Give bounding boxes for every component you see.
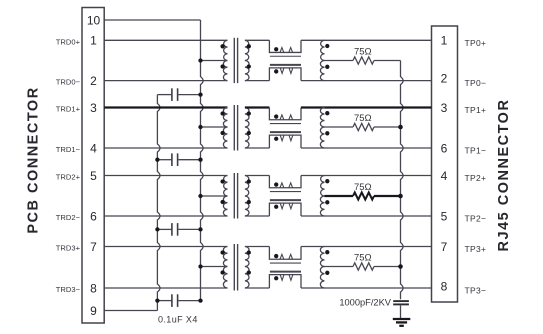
J2 pin 3 number xyxy=(441,101,448,115)
label TP0- xyxy=(465,78,487,88)
autotransformer AT4 winding xyxy=(320,247,329,289)
label TRD3- xyxy=(56,285,81,294)
svg-text:6: 6 xyxy=(90,209,97,223)
choke L1 core xyxy=(270,56,301,65)
wire choke L2 to autotransformer AT2 top / J2 xyxy=(301,106,432,108)
wire R1 to termination bus xyxy=(374,60,401,62)
transformer T3 primary winding xyxy=(220,176,227,217)
svg-text:TRD2−: TRD2− xyxy=(56,213,81,222)
wire J1 pin10 to common bus xyxy=(104,19,200,21)
choke L3 bottom winding xyxy=(269,203,301,216)
wire J1 TRD1- to T2 xyxy=(104,147,227,149)
svg-text:TRD3−: TRD3− xyxy=(56,285,81,294)
wire T4 secondary top to choke L4 xyxy=(245,246,270,248)
node common bus (pin10 vertical) xyxy=(201,20,204,301)
capacitor C1 0.1uF xyxy=(157,88,200,101)
label PCB CONNECTOR xyxy=(26,86,42,233)
node cap bus (pin9 vertical) xyxy=(157,95,160,311)
wire choke L4 to autotransformer AT4 top / J2 xyxy=(301,246,432,248)
junction T2 center tap on common bus xyxy=(198,125,202,129)
label TRD1- xyxy=(56,145,81,154)
svg-text:RJ45 CONNECTOR: RJ45 CONNECTOR xyxy=(496,99,512,252)
wire J1 TRD1+ to T2 xyxy=(104,106,227,108)
transformer T1 secondary winding xyxy=(245,40,251,80)
autotransformer AT2 winding xyxy=(320,108,329,149)
label TRD2- xyxy=(56,213,81,222)
J2 pin 8 number xyxy=(441,279,448,293)
capacitor C5 1000pF/2KV xyxy=(393,301,409,304)
svg-text:5: 5 xyxy=(90,169,97,183)
junction R2 on termination bus xyxy=(398,125,403,130)
J2 pin 5 number xyxy=(441,209,448,223)
autotransformer AT3 winding xyxy=(320,176,329,217)
transformer T2 core xyxy=(234,105,237,151)
transformer T3 secondary winding xyxy=(245,176,251,217)
J2 pin 7 number xyxy=(441,240,448,254)
choke L4 bottom winding xyxy=(269,275,301,288)
wire AT4 center tap to R4 xyxy=(325,266,354,268)
wire T2 primary center tap xyxy=(201,126,228,128)
wire J1 pin9 to cap bus xyxy=(104,310,157,312)
PCB connector J1 body xyxy=(82,8,104,324)
label R4 value 75 ohm xyxy=(354,253,372,264)
svg-text:PCB CONNECTOR: PCB CONNECTOR xyxy=(26,86,42,233)
svg-text:TP2+: TP2+ xyxy=(465,173,487,183)
junction T4 center tap on common bus xyxy=(198,264,202,268)
svg-text:1: 1 xyxy=(90,34,97,48)
svg-text:2: 2 xyxy=(441,71,448,85)
svg-text:75Ω: 75Ω xyxy=(354,47,372,58)
wire R4 to termination bus xyxy=(374,266,401,268)
node termination bus (75R common) xyxy=(401,61,404,300)
label RJ45 CONNECTOR xyxy=(496,99,512,252)
svg-text:75Ω: 75Ω xyxy=(354,182,372,193)
choke L2 core xyxy=(270,124,301,133)
transformer T4 core xyxy=(234,244,237,291)
label TP3+ xyxy=(465,244,487,254)
svg-text:TP0−: TP0− xyxy=(465,78,487,88)
wire AT1 center tap to R1 xyxy=(325,60,354,62)
wire choke L3 to autotransformer AT3 bottom / J2 xyxy=(301,215,432,217)
svg-text:7: 7 xyxy=(90,240,97,254)
svg-text:TRD1−: TRD1− xyxy=(56,145,81,154)
svg-text:4: 4 xyxy=(90,141,97,155)
transformer T2 primary winding xyxy=(220,108,227,149)
choke L4 core xyxy=(270,263,301,272)
RJ45 connector J2 body xyxy=(432,26,458,302)
svg-text:75Ω: 75Ω xyxy=(354,113,372,124)
label TRD0+ xyxy=(56,37,81,46)
junction C4 right on common bus xyxy=(198,298,202,302)
wire J1 TRD2+ to T3 xyxy=(104,175,227,177)
label TP2+ xyxy=(465,173,487,183)
label R2 value 75 ohm xyxy=(354,113,372,124)
choke L1 top winding xyxy=(269,40,301,52)
svg-text:7: 7 xyxy=(441,240,448,254)
wire T4 primary center tap xyxy=(201,266,228,268)
label R3 value 75 ohm xyxy=(354,182,372,193)
svg-text:9: 9 xyxy=(90,304,97,318)
capacitor C4 0.1uF xyxy=(157,294,200,307)
wire T2 secondary top to choke L2 xyxy=(245,106,270,108)
J2 pin 4 number xyxy=(441,169,448,183)
svg-text:6: 6 xyxy=(441,141,448,155)
wire AT3 center tap to R3 xyxy=(325,195,354,197)
J2 pin 6 number xyxy=(441,141,448,155)
wire choke L4 to autotransformer AT4 bottom / J2 xyxy=(301,287,432,289)
label TRD1+ xyxy=(56,105,81,114)
svg-text:8: 8 xyxy=(441,279,448,293)
J2 pin 1 number xyxy=(441,34,448,48)
svg-text:8: 8 xyxy=(90,281,97,295)
junction C3 right on common bus xyxy=(198,227,202,231)
svg-text:4: 4 xyxy=(441,169,448,183)
wire T3 secondary bottom to choke L3 xyxy=(245,215,270,217)
svg-text:3: 3 xyxy=(90,101,97,115)
junction C2 left on cap bus xyxy=(155,158,159,162)
J2 pin 2 number xyxy=(441,71,448,85)
svg-text:TRD2+: TRD2+ xyxy=(56,173,81,182)
junction C1 right on common bus xyxy=(198,92,202,96)
J1 pin 4 number xyxy=(90,141,97,155)
svg-text:1: 1 xyxy=(441,34,448,48)
wire T2 secondary bottom to choke L2 xyxy=(245,147,270,149)
choke L3 core xyxy=(270,192,301,201)
label 0.1uF X4 xyxy=(158,315,198,325)
wire choke L1 to autotransformer AT1 top / J2 xyxy=(301,39,432,41)
J1 pin 5 number xyxy=(90,169,97,183)
label TP1+ xyxy=(465,105,487,115)
wire choke L3 to autotransformer AT3 top / J2 xyxy=(301,175,432,177)
svg-text:TRD3+: TRD3+ xyxy=(56,244,81,253)
wire R3 to termination bus xyxy=(374,195,401,197)
wire J1 TRD0+ to T1 xyxy=(104,39,227,41)
capacitor C2 0.1uF xyxy=(157,153,200,166)
svg-text:3: 3 xyxy=(441,101,448,115)
transformer T1 primary winding xyxy=(220,40,227,80)
choke L1 bottom winding xyxy=(269,68,301,81)
svg-text:10: 10 xyxy=(87,13,101,27)
resistor R2 75 ohm xyxy=(353,123,374,130)
wire C5 to ground xyxy=(400,305,402,318)
J1 pin 1 number xyxy=(90,34,97,48)
choke L4 top winding xyxy=(269,247,301,260)
transformer T4 primary winding xyxy=(220,247,227,289)
wire T4 secondary bottom to choke L4 xyxy=(245,287,270,289)
label TRD3+ xyxy=(56,244,81,253)
resistor R4 75 ohm xyxy=(353,263,374,270)
autotransformer AT1 winding xyxy=(320,40,329,80)
svg-text:2: 2 xyxy=(90,74,97,88)
svg-text:TP0+: TP0+ xyxy=(465,38,487,48)
junction T3 center tap on common bus xyxy=(198,194,202,198)
svg-text:TP3−: TP3− xyxy=(465,286,487,296)
transformer T1 core xyxy=(234,38,237,83)
wire T3 secondary top to choke L3 xyxy=(245,175,270,177)
svg-text:TRD1+: TRD1+ xyxy=(56,105,81,114)
svg-text:5: 5 xyxy=(441,209,448,223)
svg-text:TP3+: TP3+ xyxy=(465,244,487,254)
resistor R3 75 ohm xyxy=(353,192,374,199)
J1 pin 10 number xyxy=(87,13,101,27)
wire AT2 center tap to R2 xyxy=(325,126,354,128)
label 1000pF/2KV xyxy=(339,298,391,308)
choke L3 top winding xyxy=(269,176,301,188)
svg-text:TRD0+: TRD0+ xyxy=(56,37,81,46)
wire J1 TRD3- to T4 xyxy=(104,287,227,289)
J1 pin 2 number xyxy=(90,74,97,88)
wire T1 secondary bottom to choke L1 xyxy=(245,80,270,82)
J1 pin 3 number xyxy=(90,101,97,115)
junction T1 center tap on common bus xyxy=(198,58,202,62)
J1 pin 9 number xyxy=(90,304,97,318)
resistor R1 75 ohm xyxy=(353,57,374,64)
capacitor C3 0.1uF xyxy=(157,223,200,236)
svg-text:75Ω: 75Ω xyxy=(354,253,372,264)
wire T3 primary center tap xyxy=(201,195,228,197)
label TP0+ xyxy=(465,38,487,48)
svg-text:TP1−: TP1− xyxy=(465,146,487,156)
label TRD2+ xyxy=(56,173,81,182)
wire choke L2 to autotransformer AT2 bottom / J2 xyxy=(301,147,432,149)
label TP1- xyxy=(465,146,487,156)
wire T1 primary center tap xyxy=(201,60,228,62)
wire J1 TRD3+ to T4 xyxy=(104,246,227,248)
choke L2 top winding xyxy=(269,108,301,120)
label TRD0- xyxy=(56,78,81,87)
svg-text:TRD0−: TRD0− xyxy=(56,78,81,87)
J1 pin 6 number xyxy=(90,209,97,223)
label R1 value 75 ohm xyxy=(354,47,372,58)
wire J1 TRD2- to T3 xyxy=(104,215,227,217)
svg-text:TP2−: TP2− xyxy=(465,214,487,224)
wire R2 to termination bus xyxy=(374,126,401,128)
transformer T3 core xyxy=(234,173,237,219)
junction R3 on termination bus xyxy=(398,194,403,199)
label TP2- xyxy=(465,214,487,224)
junction C3 left on cap bus xyxy=(155,227,159,231)
J1 pin 8 number xyxy=(90,281,97,295)
junction C4 left on cap bus xyxy=(155,298,159,302)
svg-text:TP1+: TP1+ xyxy=(465,105,487,115)
label TP3- xyxy=(465,286,487,296)
wire J1 TRD0- to T1 xyxy=(104,80,227,82)
svg-text:1000pF/2KV: 1000pF/2KV xyxy=(339,298,391,308)
junction R4 on termination bus xyxy=(398,264,403,269)
transformer T2 secondary winding xyxy=(245,108,251,149)
wire T1 secondary top to choke L1 xyxy=(245,39,270,41)
J1 pin 7 number xyxy=(90,240,97,254)
svg-text:0.1uF X4: 0.1uF X4 xyxy=(158,315,198,325)
transformer T4 secondary winding xyxy=(245,247,251,289)
choke L2 bottom winding xyxy=(269,135,301,148)
ground xyxy=(393,319,411,326)
junction C2 right on common bus xyxy=(198,158,202,162)
wire choke L1 to autotransformer AT1 bottom / J2 xyxy=(301,80,432,82)
